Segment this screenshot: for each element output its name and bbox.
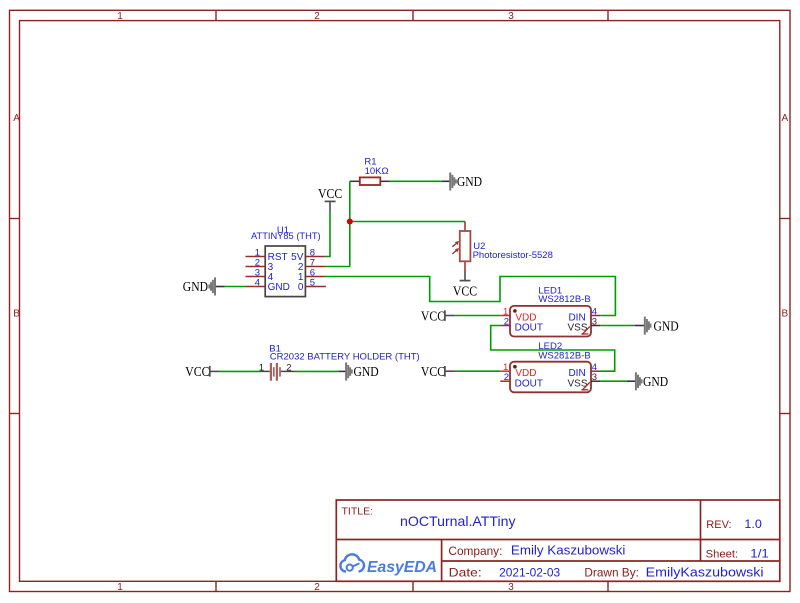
svg-text:VCC: VCC: [318, 187, 342, 202]
svg-text:EasyEDA: EasyEDA: [367, 559, 437, 576]
svg-text:EmilyKaszubowski: EmilyKaszubowski: [646, 566, 764, 580]
pin 8: [305, 256, 325, 258]
power flag VCC (LED2): [421, 365, 455, 380]
svg-text:CR2032 BATTERY HOLDER (THT): CR2032 BATTERY HOLDER (THT): [270, 351, 420, 362]
svg-text:VCC: VCC: [421, 309, 445, 324]
pin 1: [246, 256, 266, 258]
svg-text:VCC: VCC: [185, 365, 209, 380]
svg-text:DOUT: DOUT: [515, 378, 543, 389]
pin 5: [305, 286, 326, 288]
power flag VCC (top, to U1 pin8): [318, 187, 342, 212]
wire VCC to LED1 VDD: [455, 315, 501, 317]
svg-text:3: 3: [508, 11, 514, 22]
pin 2: [500, 325, 510, 327]
wire U1 pin6 to LED1 DIN (detour): [325, 277, 615, 316]
svg-text:10KΩ: 10KΩ: [365, 166, 389, 177]
svg-text:GND: GND: [183, 280, 208, 295]
LED2 WS2812B-B: [500, 362, 600, 393]
svg-text:A: A: [782, 113, 789, 124]
svg-text:1/1: 1/1: [750, 546, 769, 560]
junction dot: [347, 219, 353, 225]
svg-text:TITLE:: TITLE:: [342, 506, 374, 518]
power flag VCC (LED1): [421, 309, 455, 324]
svg-text:3: 3: [592, 372, 597, 383]
wire LED1 VSS to ground: [600, 325, 634, 327]
power flag VCC (below photoresistor): [453, 271, 477, 299]
pin 1: [500, 370, 510, 372]
svg-text:Company:: Company:: [448, 544, 502, 558]
svg-text:1: 1: [259, 362, 264, 373]
svg-text:A: A: [13, 113, 20, 124]
svg-text:1: 1: [117, 582, 123, 593]
pin 6: [305, 276, 325, 278]
svg-text:1: 1: [117, 11, 123, 22]
pin 4: [246, 286, 266, 288]
svg-text:B: B: [13, 309, 20, 320]
wire VCC to LED2 VDD: [455, 370, 501, 372]
pin 3: [246, 276, 266, 278]
battery B1 CR2032: [259, 343, 420, 380]
title block: [336, 500, 780, 581]
svg-text:WS2812B-B: WS2812B-B: [538, 294, 590, 305]
svg-text:1.0: 1.0: [744, 517, 762, 531]
ground (right of LED2): [627, 372, 668, 390]
power flag VCC (battery): [185, 365, 219, 380]
pin 2: [500, 380, 510, 382]
svg-text:Sheet:: Sheet:: [706, 548, 739, 560]
wire R1 to U1 pin7 (vertical through junction): [349, 181, 351, 266]
svg-text:Date:: Date:: [449, 566, 482, 580]
ground (right of LED1): [635, 317, 679, 335]
wire battery to ground: [295, 370, 339, 372]
svg-text:Drawn By:: Drawn By:: [584, 566, 639, 580]
svg-text:3: 3: [592, 316, 597, 327]
svg-text:GND: GND: [654, 319, 679, 334]
wire VCC to battery: [220, 370, 261, 372]
svg-text:2021-02-03: 2021-02-03: [499, 566, 560, 580]
EasyEDA logo: [340, 554, 437, 576]
pin 2: [246, 266, 266, 268]
svg-text:B: B: [782, 309, 789, 320]
svg-text:GND: GND: [268, 282, 290, 293]
svg-text:4: 4: [255, 277, 260, 288]
wire LED2 VSS to ground: [600, 380, 627, 382]
pin 1: [500, 315, 510, 317]
svg-text:0: 0: [298, 282, 304, 293]
svg-text:VCC: VCC: [453, 284, 477, 299]
svg-text:WS2812B-B: WS2812B-B: [538, 351, 590, 362]
pin 7: [305, 266, 325, 268]
ground (right of battery): [339, 363, 379, 381]
svg-text:ATTINY85 (THT): ATTINY85 (THT): [251, 231, 321, 242]
pin 4: [591, 370, 600, 372]
svg-text:Emily Kaszubowski: Emily Kaszubowski: [511, 544, 626, 558]
wire R1 to GND: [390, 180, 443, 182]
svg-text:GND: GND: [643, 375, 668, 390]
svg-text:DOUT: DOUT: [515, 323, 543, 334]
pin 3: [591, 325, 600, 327]
svg-text:5: 5: [310, 277, 315, 288]
LED1 WS2812B-B: [500, 306, 600, 337]
svg-text:nOCTurnal.ATTiny: nOCTurnal.ATTiny: [400, 513, 516, 529]
ground (left of U1): [183, 277, 225, 295]
svg-text:VCC: VCC: [421, 365, 445, 380]
pin 4: [591, 315, 600, 317]
resistor R1: [350, 156, 390, 185]
ground (top right of R1): [442, 172, 482, 190]
wire U1 pin4 to ground: [225, 286, 246, 288]
svg-text:GND: GND: [457, 175, 482, 190]
op IC U1 ATTINY85: [246, 225, 326, 297]
photoresistor U2: [452, 222, 552, 272]
svg-text:2: 2: [504, 316, 509, 327]
svg-text:2: 2: [286, 362, 291, 373]
pin 3: [591, 380, 600, 382]
svg-text:2: 2: [504, 372, 509, 383]
wire LED1 DOUT to LED2 DIN: [491, 326, 615, 372]
wire VCC to U1 pin8: [325, 212, 330, 257]
svg-text:2: 2: [314, 11, 320, 22]
wire junction to photoresistor: [350, 221, 465, 223]
svg-text:REV:: REV:: [706, 519, 731, 531]
svg-text:2: 2: [314, 582, 320, 593]
svg-text:Photoresistor-5528: Photoresistor-5528: [473, 250, 553, 261]
svg-text:GND: GND: [354, 365, 379, 380]
svg-text:3: 3: [508, 582, 514, 593]
